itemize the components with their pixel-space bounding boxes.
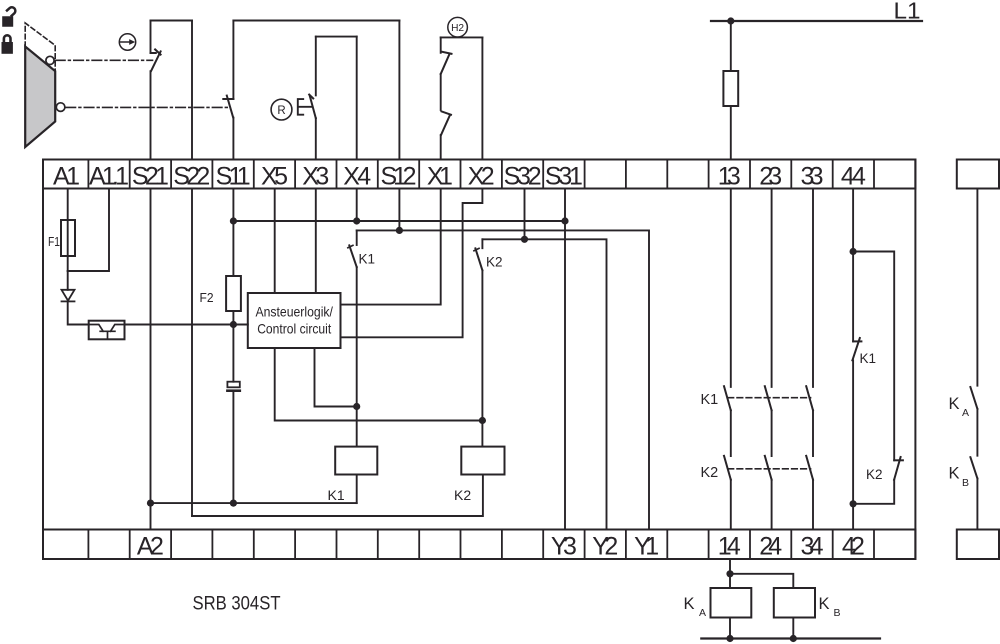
svg-text:14: 14 — [718, 533, 741, 561]
svg-text:X1: X1 — [427, 162, 453, 190]
contact KB feedback — [970, 457, 977, 478]
svg-text:B: B — [834, 607, 841, 619]
wire bridge X1-X2 top — [441, 36, 483, 38]
node 44 branch — [850, 248, 857, 255]
svg-text:Y1: Y1 — [634, 533, 659, 561]
svg-text:S21: S21 — [132, 162, 169, 190]
node K1 coil feed — [353, 403, 360, 410]
label KA feedback contact — [949, 395, 970, 419]
svg-text:33: 33 — [801, 162, 824, 190]
wire KA coil to neutral rail — [729, 618, 731, 639]
svg-text:R: R — [277, 105, 285, 117]
mechanical link K2 poles (dashed) — [728, 468, 811, 470]
contact X1 upper (solenoid monitor NC) — [441, 52, 452, 74]
guard door closed (gray panel) — [25, 47, 55, 148]
pole 23-24 contact K2 blade — [765, 456, 772, 480]
wire 14 down — [729, 559, 731, 588]
svg-text:F1: F1 — [48, 234, 60, 249]
external feedback wire lower — [976, 479, 978, 530]
rail K1 feedback net (y 230.4) — [357, 230, 649, 529]
svg-text:X2: X2 — [468, 162, 495, 190]
svg-text:13: 13 — [718, 162, 741, 190]
contact X3 reset button (NO) — [309, 95, 316, 119]
door actuator node circle (bottom) — [56, 103, 65, 112]
svg-text:S12: S12 — [381, 162, 417, 190]
wire S11 lower — [232, 118, 234, 160]
wire S32 down — [524, 189, 526, 240]
pole 33-34 contact K1 blade — [806, 386, 813, 410]
wire X3 upper — [315, 37, 317, 96]
external feedback wire middle — [976, 409, 978, 456]
reset button actuator — [298, 99, 312, 115]
wire A1.1 down — [68, 189, 109, 272]
external feedback wire upper — [976, 189, 978, 386]
SECTION: labels — [53, 162, 866, 560]
svg-text:K2: K2 — [454, 487, 471, 503]
svg-text:K: K — [949, 465, 960, 483]
node X4 on rail — [353, 217, 360, 224]
contact K1 (NO) — [348, 230, 357, 267]
wire fuse to terminal 13 — [730, 106, 732, 160]
module body outline — [43, 160, 915, 560]
svg-text:F2: F2 — [200, 290, 214, 305]
node S31 on rail — [561, 217, 568, 224]
wire S21 upper — [150, 21, 152, 54]
wire X3 into logic — [315, 189, 317, 294]
wire X4 upper — [356, 37, 358, 160]
bottom row cell dividers — [88, 530, 874, 560]
diode — [62, 290, 75, 302]
svg-text:A: A — [962, 407, 969, 419]
external terminal box bottom right — [957, 530, 999, 560]
wire bridge X3-X4 — [316, 36, 357, 38]
wire S21 lower — [150, 71, 152, 159]
svg-text:K: K — [949, 395, 960, 413]
wire S11 upper — [232, 21, 234, 100]
svg-text:A1.1: A1.1 — [89, 162, 129, 190]
svg-text:A1: A1 — [53, 162, 80, 190]
wire X1 lower — [440, 135, 442, 160]
label KB coil — [819, 595, 841, 619]
contact S11 (door position NC contact) — [223, 96, 233, 118]
svg-text:K1: K1 — [701, 392, 719, 408]
svg-text:X3: X3 — [302, 162, 329, 190]
wire branch to KB coil — [730, 574, 793, 588]
node K2 coil feed — [479, 417, 486, 424]
mechanical link K1 poles (dashed) — [728, 397, 811, 399]
pole 33-34 contact K2 blade — [806, 456, 813, 480]
wire 44 down — [852, 189, 854, 342]
reset button circle R — [271, 99, 292, 120]
svg-text:24: 24 — [759, 533, 782, 561]
wire X3 lower — [315, 118, 317, 159]
contact K2 (NO) — [474, 239, 482, 270]
node S11 branch on A2 rail — [230, 500, 237, 507]
svg-text:SRB 304ST: SRB 304ST — [193, 593, 281, 615]
wire K1 contact to coil — [356, 267, 358, 447]
actuation direction symbol (circle with arrow) — [119, 34, 135, 50]
wire X2 into logic right side — [341, 189, 483, 338]
pole 33-34 wires — [812, 189, 814, 530]
wire A1 down — [67, 189, 69, 272]
svg-text:H2: H2 — [451, 23, 464, 34]
wire X1 into logic right side — [341, 189, 441, 305]
label KB feedback contact — [949, 465, 970, 490]
svg-text:Y3: Y3 — [551, 533, 577, 561]
pole 13-14 contact K1 blade — [724, 386, 731, 410]
wire X1 middle — [440, 74, 442, 110]
external terminal box top right — [957, 160, 999, 189]
relay coil K2 — [461, 447, 504, 475]
wire K2 contact to coil — [481, 270, 483, 446]
node L1-13 — [727, 17, 734, 24]
svg-text:K2: K2 — [866, 467, 883, 482]
wire S31 column down to Y3 — [564, 189, 566, 530]
node KA on rail — [726, 635, 733, 642]
svg-text:K: K — [819, 595, 830, 613]
supply line L1 — [711, 20, 922, 22]
pole 23-24 contact K1 blade — [765, 386, 772, 410]
svg-text:K1: K1 — [328, 487, 345, 503]
control logic box — [248, 293, 341, 348]
wire X4 down — [356, 189, 358, 222]
svg-text:L1: L1 — [894, 0, 921, 24]
svg-text:K: K — [684, 595, 695, 613]
bottom terminal row — [43, 530, 915, 560]
wire S22 — [191, 21, 193, 160]
wire to diode — [67, 271, 69, 290]
module outline with top terminal row — [43, 160, 915, 189]
contact K1 NC monitor — [852, 338, 861, 360]
wire X1 upper — [440, 37, 442, 52]
guard door open position (dashed outline) — [25, 23, 55, 71]
pole 13-14 contact K2 blade — [724, 456, 731, 480]
wire K2 coil to S22 rail — [192, 475, 483, 517]
svg-text:44: 44 — [841, 162, 866, 190]
logic output to K1 coil — [315, 348, 357, 407]
contact S21 (door position NC contact) — [151, 49, 161, 71]
fuse F1 — [61, 220, 75, 256]
svg-text:K1: K1 — [860, 351, 877, 366]
wire bridge S11-S12 — [233, 20, 399, 22]
node S12 on rail — [396, 227, 403, 234]
rail K2 feedback net (y 239.3) — [482, 239, 606, 529]
contact K2 NC monitor — [894, 457, 903, 480]
wire A2 — [150, 503, 152, 529]
padlock closed icon — [2, 35, 13, 54]
door actuator node circle (top) — [46, 56, 54, 64]
node 42 — [850, 500, 857, 507]
svg-text:A2: A2 — [137, 533, 164, 561]
node on S11 column at control line — [230, 321, 237, 328]
contact KA feedback — [970, 387, 977, 409]
fuse F2 — [226, 276, 241, 311]
wire 44 branch to K2 path — [853, 252, 894, 461]
svg-text:42: 42 — [842, 533, 865, 561]
wire diode to switching element — [68, 301, 89, 324]
wire L1 to fuse — [730, 21, 732, 71]
node S21/A2 — [147, 500, 154, 507]
wire S22 column down — [191, 189, 193, 517]
svg-text:Control circuit: Control circuit — [257, 321, 331, 336]
actuation dash-dot link to S21 contact — [56, 59, 153, 61]
wire K1 coil to bottom rail — [356, 475, 358, 504]
wire S11 column upper — [232, 189, 234, 277]
neutral rail — [701, 637, 880, 639]
svg-text:S32: S32 — [504, 162, 542, 190]
svg-text:X5: X5 — [261, 162, 288, 190]
logic output to K2 coil — [275, 348, 483, 421]
wire X2 upper — [481, 37, 483, 159]
svg-text:Ansteuerlogik/: Ansteuerlogik/ — [255, 304, 333, 319]
capacitor (polarized) — [227, 382, 239, 391]
svg-text:S31: S31 — [545, 162, 583, 190]
wire K2 monitor to node 42 — [853, 480, 894, 504]
relay coil K1 — [335, 447, 377, 475]
rail S11 net (y 221) — [233, 220, 565, 222]
svg-text:K2: K2 — [486, 255, 503, 270]
fuse above terminal 13 — [723, 71, 738, 106]
wire X5 into logic — [274, 189, 276, 294]
node 14 branch — [726, 570, 733, 577]
wire K1 monitor to node 42 — [852, 360, 854, 529]
contactor coil KB — [774, 588, 815, 618]
node S32 on rail — [521, 236, 528, 243]
wire KB coil to neutral rail — [792, 618, 794, 639]
label KA coil — [684, 595, 707, 619]
svg-text:X4: X4 — [343, 162, 371, 190]
svg-text:B: B — [962, 477, 969, 489]
node KB on rail — [790, 635, 797, 642]
node S11 rail — [230, 217, 237, 224]
top row cell dividers — [88, 160, 874, 189]
pole 13-14 wires — [730, 189, 732, 530]
wire S12 down — [398, 189, 400, 231]
wire S12 — [398, 21, 400, 160]
wire F2 to capacitor — [232, 311, 234, 382]
svg-text:34: 34 — [801, 533, 824, 561]
svg-text:23: 23 — [759, 162, 782, 190]
wire switching element to S11 node — [125, 324, 248, 326]
wire bridge S21-S22 — [151, 20, 193, 22]
wire capacitor to bottom rail — [232, 392, 234, 503]
contact X1 lower (solenoid monitor NC) — [441, 111, 451, 135]
svg-text:K1: K1 — [359, 252, 376, 267]
svg-text:Y2: Y2 — [592, 533, 618, 561]
electronic switching element (opto/transistor) — [89, 321, 125, 340]
svg-text:K2: K2 — [701, 465, 719, 481]
svg-text:S11: S11 — [216, 162, 251, 190]
padlock open icon — [2, 6, 17, 27]
pole 23-24 wires — [771, 189, 773, 530]
bottom rail A2 net — [151, 502, 357, 504]
contactor coil KA — [711, 588, 752, 618]
actuation dash-dot link to S11 contact — [66, 106, 230, 108]
lamp symbol H2 — [448, 17, 468, 37]
svg-text:A: A — [699, 607, 706, 619]
wire S21 column down — [150, 189, 152, 504]
svg-text:S22: S22 — [173, 162, 210, 190]
